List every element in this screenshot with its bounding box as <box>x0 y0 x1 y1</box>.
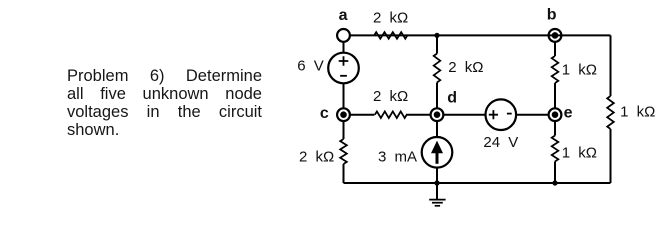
resistor 1k (e to bottom rail) <box>552 136 559 162</box>
voltage source V1 6V <box>328 53 359 84</box>
resistor 2k bottom left (c to ground rail) <box>340 139 347 164</box>
ground <box>429 200 445 206</box>
junction bottom rail at ground <box>434 180 439 185</box>
node e <box>549 108 562 121</box>
wire 24V source to node e <box>516 114 549 116</box>
node d <box>431 108 444 121</box>
wire node d to 24V source <box>443 114 485 116</box>
wire 2k vertical resistor to node d <box>436 83 438 109</box>
wire top junction down to 2k vertical resistor <box>436 35 438 53</box>
wire node e bottom to 1k resistor <box>554 121 556 135</box>
voltage source V2 24V <box>486 99 517 130</box>
node b <box>549 29 562 42</box>
svg-text:a: a <box>339 7 348 24</box>
wire node a to 6V source top <box>343 42 345 53</box>
svg-text:1 kΩ: 1 kΩ <box>620 104 655 121</box>
wire ground stem <box>436 183 438 199</box>
junction bottom rail below e <box>552 180 557 185</box>
wire bottom rail <box>344 182 611 184</box>
wire 6V source bottom to node c <box>343 83 345 108</box>
wire 1k resistor to node e top <box>554 83 556 108</box>
wire right side vertical (bottom segment) <box>610 129 612 183</box>
svg-text:c: c <box>320 105 329 122</box>
resistor 1k (b to e) <box>552 56 559 83</box>
svg-text:1 kΩ: 1 kΩ <box>562 144 597 161</box>
svg-text:2 kΩ: 2 kΩ <box>373 88 408 105</box>
resistor R top 2k (a-b rail) <box>374 32 407 39</box>
wire 3mA source bottom to bottom rail <box>436 168 438 183</box>
svg-text:d: d <box>447 90 457 107</box>
svg-text:e: e <box>564 105 573 122</box>
svg-text:2 kΩ: 2 kΩ <box>448 59 483 76</box>
junction on top rail <box>434 33 439 38</box>
wire right side vertical (top segment) <box>610 35 612 96</box>
wire 2k resistor to bottom rail <box>343 164 345 183</box>
svg-text:b: b <box>547 6 557 23</box>
resistor 1k far right <box>607 96 614 129</box>
wire node b bottom to 1k resistor <box>554 42 556 56</box>
wire top: node a to top-right corner <box>350 34 611 36</box>
svg-text:2 kΩ: 2 kΩ <box>299 148 334 165</box>
wire 1k resistor to bottom rail <box>554 162 556 184</box>
resistor 2k (c to d) <box>375 111 407 118</box>
wire node c to resistor c-d <box>350 114 375 116</box>
node a (open terminal) <box>337 29 350 42</box>
problem statement text <box>67 68 262 140</box>
wire resistor to node d <box>406 114 431 116</box>
node c <box>337 108 350 121</box>
wire node d bottom to 3mA source <box>436 121 438 137</box>
wire node c bottom to 2k resistor <box>343 121 345 139</box>
resistor 2k vertical (top junction to d) <box>434 54 441 83</box>
svg-text:2 kΩ: 2 kΩ <box>373 10 408 27</box>
current source I1 3mA <box>422 137 453 168</box>
svg-text:1 kΩ: 1 kΩ <box>562 61 597 78</box>
svg-text:3 mA: 3 mA <box>378 148 417 165</box>
svg-text:6 V: 6 V <box>297 58 324 75</box>
svg-text:24 V: 24 V <box>483 134 518 151</box>
